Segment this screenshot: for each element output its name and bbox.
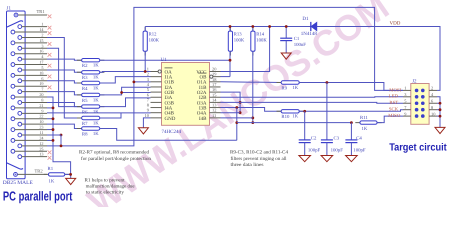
svg-text:I1B: I1B <box>199 85 207 91</box>
wire DB25 pin21 to ground bus <box>47 107 53 109</box>
74HC244 pin 14 stub <box>210 101 221 103</box>
ground bus J2 even pins <box>437 97 440 128</box>
wire DB25 pin10 to R8 <box>47 124 82 128</box>
connector J1 pin 2 <box>18 36 22 40</box>
74HC244 pin 19 inversion bubble <box>210 75 213 78</box>
svg-text:J1: J1 <box>7 6 12 12</box>
wire DB25 pin23 to ground bus <box>47 129 53 131</box>
74HC244 pin 4 stub <box>151 86 162 88</box>
svg-text:R9: R9 <box>281 85 287 91</box>
connector J1 DB25 outline <box>7 11 26 179</box>
svg-text:C2: C2 <box>311 136 317 142</box>
resistor R7 <box>77 117 104 119</box>
svg-text:R7: R7 <box>82 121 88 127</box>
wire DB25 pin2 down vertical to R7 row <box>47 37 82 118</box>
svg-text:11: 11 <box>39 130 43 135</box>
wire DB25 pin12 to top rail <box>47 7 403 145</box>
74HC244 pin 20 stub <box>210 71 221 73</box>
74HC244 pin 19 stub <box>210 76 221 78</box>
svg-text:O3A: O3A <box>197 100 207 106</box>
svg-text:OB: OB <box>200 75 208 81</box>
svg-text:R12: R12 <box>149 32 157 38</box>
svg-text:MOSI: MOSI <box>389 87 401 93</box>
svg-text:1K: 1K <box>93 85 99 91</box>
svg-text:I2B: I2B <box>199 95 207 101</box>
svg-text:C4: C4 <box>356 136 362 142</box>
wire 74HC244 pin 11 to MISO line <box>221 117 253 119</box>
74HC244 pin 13 stub <box>210 107 221 109</box>
svg-text:6: 6 <box>431 98 434 103</box>
resistor R5 <box>77 94 104 96</box>
wire DB25 pin8 to R6 <box>47 102 82 106</box>
resistor R12 100K <box>144 27 146 56</box>
svg-text:1K: 1K <box>93 131 99 137</box>
connector J2 pin 10 <box>421 114 425 118</box>
watermark <box>80 0 396 222</box>
wire MISO line to R11 <box>237 122 352 124</box>
connector J1 pin 12 <box>18 144 22 148</box>
svg-text:1: 1 <box>404 86 406 91</box>
svg-text:1K: 1K <box>93 120 99 126</box>
svg-text:10: 10 <box>431 111 436 116</box>
74HC244 pin 1 stub <box>151 71 162 73</box>
svg-text:7: 7 <box>404 105 407 110</box>
wire R7 output jog <box>100 113 121 118</box>
svg-text:1K: 1K <box>93 109 99 115</box>
74HC244 pin 11 stub <box>210 117 221 119</box>
svg-text:O1A: O1A <box>197 80 207 86</box>
svg-text:D1: D1 <box>302 16 309 22</box>
svg-text:R2: R2 <box>82 63 88 69</box>
wire DB25 pin9 direct to 74HC244 pin 9 <box>47 112 151 114</box>
wire R9 to MOSI J2 pin 1 <box>299 83 403 91</box>
connector J1 pin 9 <box>18 111 22 115</box>
74HC244 pin 3 stub <box>151 81 162 83</box>
connector J1 pin 18 <box>11 73 15 77</box>
svg-text:R5: R5 <box>82 98 88 104</box>
svg-text:1K: 1K <box>93 97 99 103</box>
svg-text:16: 16 <box>39 49 43 54</box>
no-connect X on pin 13 <box>48 156 52 160</box>
wire 74HC244 pin 14 to RST J2 pin 5 <box>221 101 404 104</box>
wire 74HC244 pin 5 O2B tie <box>122 92 151 94</box>
svg-text:23: 23 <box>39 125 43 130</box>
no-connect X on pin 18 <box>48 75 52 79</box>
svg-text:100nF: 100nF <box>294 42 307 48</box>
capacitor C3 100pF <box>326 83 328 140</box>
svg-text:PC parallel port: PC parallel port <box>3 189 73 204</box>
wire 74HC244 pin 12 stub <box>221 112 241 114</box>
wire DB25 pin6 to R4 <box>47 81 82 83</box>
svg-text:filters prevent ringing on all: filters prevent ringing on all <box>231 156 288 162</box>
resistor R1 1K <box>44 173 70 175</box>
wire R2 output to 74HC244 pin 19 <box>100 59 230 61</box>
resistor R3 <box>77 71 104 73</box>
svg-text:12: 12 <box>39 141 43 146</box>
connector J2 pin 2 <box>421 89 425 93</box>
svg-text:three data lines: three data lines <box>231 162 264 168</box>
svg-text:RST: RST <box>389 100 398 106</box>
svg-text:100K: 100K <box>234 37 245 43</box>
connector J1 pin 4 <box>18 57 22 61</box>
connector J1 pin 15 <box>11 41 15 45</box>
svg-text:O2A: O2A <box>197 90 207 96</box>
wire R11 to MISO J2 pin 9 <box>377 116 403 123</box>
74HC244 pin 9 stub <box>151 112 162 114</box>
svg-text:TR2: TR2 <box>35 169 44 174</box>
connector J1 pin 24 <box>11 139 15 143</box>
svg-text:100K: 100K <box>149 37 160 43</box>
74HC244 pin 5 stub <box>151 91 162 93</box>
connector J1 pin 14 <box>11 30 15 34</box>
74HC244 pin 8 stub <box>151 107 162 109</box>
ground at C2 <box>299 156 311 162</box>
connector J1 pin 20 <box>11 95 15 99</box>
wire DB25 pin7 to R5 <box>47 92 82 95</box>
wire 74HC244 pin 18 to R9 <box>221 81 282 84</box>
connector J1 shield pin TR2 <box>14 173 18 177</box>
wire DB25 pin3 down vertical to R6 row <box>47 48 82 106</box>
wire DB25 pin4 to R2 <box>47 59 82 60</box>
svg-text:I1A: I1A <box>165 75 173 81</box>
svg-text:R10: R10 <box>281 114 290 120</box>
svg-text:R14: R14 <box>256 32 264 38</box>
svg-text:1K: 1K <box>292 114 298 120</box>
wire 74HC244 VCC pin 20 to rail <box>221 27 270 72</box>
connector J1 pin 23 <box>11 128 15 132</box>
wire DB25 pin24 to ground bus <box>47 139 53 141</box>
svg-text:5: 5 <box>41 65 43 70</box>
svg-text:R8: R8 <box>82 131 88 137</box>
connector J1 pin 7 <box>18 90 22 94</box>
svg-text:R3: R3 <box>82 75 88 81</box>
svg-text:O3B: O3B <box>165 100 175 106</box>
svg-text:6: 6 <box>41 76 43 81</box>
connector J2 pin 1 <box>415 89 419 93</box>
74HC244 pin 16 stub <box>210 91 221 93</box>
svg-text:I4A: I4A <box>165 105 173 111</box>
connector J1 pin 3 <box>18 46 22 50</box>
connector J2 pin 9 <box>415 114 419 118</box>
svg-text:1K: 1K <box>292 85 298 91</box>
svg-text:MISO: MISO <box>388 113 401 119</box>
connector J1 pin 8 <box>18 101 22 105</box>
svg-text:TR1: TR1 <box>37 9 46 14</box>
74HC244 pin 7 stub <box>151 101 162 103</box>
no-connect X on pin 19 <box>48 85 52 89</box>
svg-text:U1: U1 <box>161 57 168 63</box>
svg-text:to static electricity: to static electricity <box>86 190 125 196</box>
resistor R11 1K <box>355 122 381 124</box>
svg-text:I4B: I4B <box>199 116 207 122</box>
svg-text:R13: R13 <box>234 32 242 38</box>
74HC244 pin 12 stub <box>210 112 221 114</box>
svg-text:O2B: O2B <box>165 90 175 96</box>
wire 74HC244 pin 13 to R10 <box>221 108 282 112</box>
svg-text:13: 13 <box>39 152 43 157</box>
svg-text:3: 3 <box>41 43 43 48</box>
wire 74HC244 pin 3 O1B to sense rail <box>134 81 151 83</box>
svg-text:1N4148: 1N4148 <box>301 31 318 37</box>
svg-text:R9-C3, R10-C2 and R11-C4: R9-C3, R10-C2 and R11-C4 <box>230 150 289 156</box>
ground bus DB25 pins 20-24 <box>47 97 71 174</box>
no-connect X on pin 17 <box>48 64 52 68</box>
wire R6 output to 74HC244 pin 6 <box>100 98 151 107</box>
svg-text:R4: R4 <box>82 86 88 92</box>
svg-text:21: 21 <box>39 103 43 108</box>
svg-text:R6: R6 <box>82 110 88 116</box>
connector J1 pin 17 <box>11 63 15 67</box>
svg-text:100pF: 100pF <box>331 148 344 154</box>
svg-text:18: 18 <box>39 70 43 75</box>
svg-text:1: 1 <box>41 22 43 27</box>
no-connect X on pin 16 <box>48 53 52 57</box>
wire 74HC244 pin 16 tie to reset net <box>221 92 241 113</box>
resistor R9 1K <box>277 82 304 84</box>
svg-text:2: 2 <box>41 32 43 37</box>
svg-text:24: 24 <box>39 135 44 140</box>
wire MISO branch vertical <box>236 108 238 141</box>
svg-text:DB25 MALE: DB25 MALE <box>3 180 33 186</box>
connector J1 pin 5 <box>18 68 22 72</box>
resistor R4 <box>77 82 104 84</box>
connector J1 pin 10 <box>18 122 22 126</box>
wire D1 anode to VDD and J2 pin 2 <box>317 27 440 91</box>
resistor R6 <box>77 106 104 108</box>
svg-text:15: 15 <box>39 38 43 43</box>
svg-text:I2A: I2A <box>165 85 173 91</box>
connector J1 pin 1 <box>18 25 22 29</box>
svg-text:GND: GND <box>165 116 176 122</box>
no-connect X on pin 15 <box>48 42 52 46</box>
svg-text:VDD: VDD <box>390 20 401 26</box>
svg-text:17: 17 <box>39 60 43 65</box>
wire pin11 stub end <box>47 134 61 136</box>
capacitor C4 100pF <box>350 123 352 140</box>
svg-text:R1 helps to prevent: R1 helps to prevent <box>85 177 126 183</box>
74HC244 pin 18 stub <box>210 81 221 83</box>
svg-text:C1: C1 <box>294 36 300 42</box>
svg-text:R2-R7 optional, R8 recommended: R2-R7 optional, R8 recommended <box>79 150 150 156</box>
connector J2 pin 8 <box>421 108 425 112</box>
svg-text:SCK: SCK <box>389 107 399 113</box>
svg-text:1K: 1K <box>93 63 99 69</box>
connector J2 pin 5 <box>415 101 419 105</box>
74HC244 pin 10 stub <box>151 117 162 119</box>
svg-text:20: 20 <box>39 92 43 97</box>
ground at C4 <box>346 156 358 162</box>
no-connect X on pin 25 <box>48 150 52 154</box>
wire R5 output to 74HC244 pin 4 <box>100 87 151 95</box>
wire R4 output to 74HC244 pin 2 <box>100 77 151 83</box>
wire tie pins 11-12 <box>60 135 62 146</box>
connector J2 body <box>411 84 429 125</box>
svg-text:O4A: O4A <box>197 111 207 117</box>
svg-text:1K: 1K <box>49 179 55 185</box>
svg-text:WWW.LANCOS.COM: WWW.LANCOS.COM <box>80 0 396 207</box>
svg-text:4: 4 <box>41 54 44 59</box>
svg-text:C3: C3 <box>334 136 340 142</box>
svg-text:7: 7 <box>41 87 43 92</box>
svg-text:8: 8 <box>431 105 434 110</box>
connector J2 pin 4 <box>421 95 425 99</box>
svg-text:VCC: VCC <box>196 69 207 75</box>
ground at C1 <box>281 53 291 59</box>
svg-text:14: 14 <box>39 27 44 32</box>
74HC244 pin 15 stub <box>210 96 221 98</box>
svg-text:9: 9 <box>41 108 43 113</box>
74HC244 pin 17 stub <box>210 86 221 88</box>
svg-text:Target circuit: Target circuit <box>389 142 447 153</box>
wire R8 output long MISO return line <box>100 129 237 141</box>
74HC244 pin 1 inversion bubble <box>158 70 161 73</box>
svg-text:10: 10 <box>145 113 150 118</box>
wire DB25 pin11 sense <box>60 134 63 137</box>
resistor R14 100K miso pull-up <box>252 27 254 56</box>
capacitor C2 100pF <box>304 111 306 140</box>
svg-text:2: 2 <box>431 86 433 91</box>
svg-text:3: 3 <box>404 92 407 97</box>
connector J1 pin 16 <box>11 52 15 56</box>
connector J2 pin 7 <box>415 108 419 112</box>
svg-text:25: 25 <box>39 146 43 151</box>
wire R3 output to 74HC244 pin 1 <box>100 71 151 74</box>
connector J2 pin 3 <box>415 95 419 99</box>
svg-text:100pF: 100pF <box>353 148 366 154</box>
wire R13 to 74HC244 pin 19 <box>221 76 230 78</box>
connector J1 shield pin TR1 <box>14 13 18 17</box>
wire DB25 pin5 to R3 <box>47 70 82 72</box>
svg-text:100K: 100K <box>256 37 267 43</box>
svg-text:I3B: I3B <box>199 105 207 111</box>
resistor R2 <box>77 59 104 61</box>
svg-text:J2: J2 <box>412 78 417 84</box>
no-connect X on TR1 <box>48 14 52 18</box>
svg-text:11: 11 <box>212 113 216 118</box>
svg-text:R1: R1 <box>48 166 54 172</box>
svg-text:R11: R11 <box>360 115 368 121</box>
ground at R1 <box>66 178 76 184</box>
74HC244 pin 6 stub <box>151 96 162 98</box>
svg-text:74HC244: 74HC244 <box>162 129 182 135</box>
connector J1 pin 6 <box>18 79 22 83</box>
diode D1 1N4148 <box>307 26 312 28</box>
ground at C3 <box>321 156 333 162</box>
svg-text:4: 4 <box>431 92 434 97</box>
svg-text:1K: 1K <box>93 75 99 81</box>
svg-text:5: 5 <box>404 98 407 103</box>
no-connect X on pin 1 <box>48 26 52 30</box>
svg-text:LED: LED <box>389 94 399 100</box>
resistor R13 100K <box>229 27 231 56</box>
capacitor C1 100nF <box>285 27 287 39</box>
connector J1 pin 25 <box>11 149 15 153</box>
svg-text:O1B: O1B <box>165 80 175 86</box>
svg-text:I3A: I3A <box>165 95 173 101</box>
connector J1 pin 21 <box>11 106 15 110</box>
svg-text:1K: 1K <box>362 126 368 132</box>
svg-text:19: 19 <box>39 81 43 86</box>
connector J1 pin 19 <box>11 84 15 88</box>
svg-text:O4B: O4B <box>165 111 175 117</box>
svg-text:9: 9 <box>404 111 407 116</box>
svg-text:for parallel port/dongle prote: for parallel port/dongle protection <box>81 156 152 162</box>
svg-text:OA: OA <box>165 69 173 75</box>
resistor R10 1K <box>277 110 304 112</box>
svg-text:8: 8 <box>41 97 43 102</box>
svg-text:malfunction/damage due: malfunction/damage due <box>86 184 135 190</box>
wire R10 to SCK J2 pin 7 <box>299 110 403 112</box>
wire R1 to ground <box>65 173 71 175</box>
wire DB25 pin22 to ground bus <box>47 118 53 120</box>
wire 74HC244 pin 15 to LED J2 pin 3 <box>221 96 404 98</box>
connector J1 pin 13 <box>18 155 22 159</box>
svg-text:100pF: 100pF <box>308 148 321 154</box>
svg-text:22: 22 <box>39 114 43 119</box>
no-connect X on pin 14 <box>48 31 52 35</box>
connector J1 pin 11 <box>18 133 22 137</box>
IC U1 74HC244 body <box>162 63 210 126</box>
connector J1 pin 22 <box>11 117 15 121</box>
resistor R8 <box>77 128 104 130</box>
ground at J2 <box>435 127 445 133</box>
connector J2 pin 6 <box>421 101 425 105</box>
ground at 74HC244 GND pin 10 <box>143 118 150 128</box>
74HC244 pin 2 stub <box>151 76 162 78</box>
VCC rail <box>145 26 310 28</box>
svg-text:10: 10 <box>39 119 43 124</box>
